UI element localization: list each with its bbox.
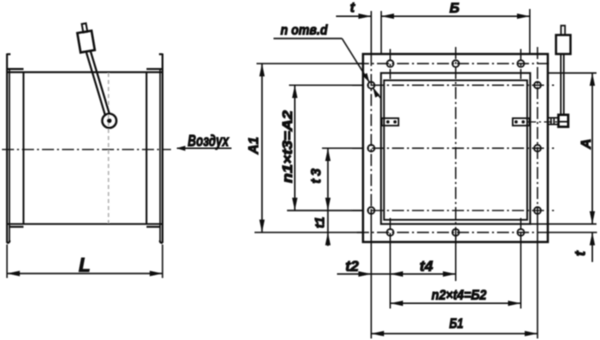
pivot center — [107, 119, 112, 124]
blade vertical centerline — [455, 47, 457, 247]
blade horizontal centerline — [352, 147, 554, 149]
centerline col4 bottom stub — [520, 218, 522, 234]
bolt hole left 1 — [368, 82, 375, 89]
A extension bottom — [530, 223, 597, 225]
t3 extension — [322, 147, 363, 149]
dimension B — [381, 15, 530, 17]
front handle rod — [561, 54, 564, 115]
dimension t4 — [390, 273, 456, 275]
L extension right — [162, 245, 164, 279]
svg-text:t4: t4 — [420, 258, 434, 275]
lower extension col2 — [389, 234, 391, 309]
svg-text:n2×t4=Б2: n2×t4=Б2 — [432, 287, 487, 302]
right hinge bracket — [513, 118, 530, 125]
bolt hole left 2 — [368, 145, 375, 152]
bolt hole left 3 — [368, 207, 375, 214]
dimension t3 — [327, 148, 329, 210]
svg-text:n отв.d: n отв.d — [281, 22, 329, 37]
A2 extension top — [289, 84, 363, 86]
duct body bottom edge — [7, 223, 163, 225]
lower extension col5 — [537, 211, 539, 339]
svg-text:t: t — [572, 250, 589, 256]
centerline col2 top stub — [389, 49, 391, 79]
bolt hole bottom 3 — [517, 229, 524, 236]
t top extension 2 — [380, 11, 382, 54]
axis stub centerline — [528, 121, 558, 123]
A1 extension bottom — [255, 231, 364, 233]
handle rod — [86, 50, 109, 114]
duct body top edge — [7, 71, 163, 73]
t right extension — [548, 231, 597, 233]
A2 extension bottom — [287, 210, 363, 212]
duct left wall — [23, 72, 25, 224]
front handle tab — [548, 118, 559, 125]
dimension A1 — [261, 64, 263, 233]
frame outer square — [363, 54, 548, 242]
hole centerline left column — [370, 54, 372, 211]
leader line — [274, 39, 381, 99]
A1 extension top — [257, 63, 364, 65]
right flange — [147, 54, 163, 244]
bolt hole right 2 — [534, 145, 541, 152]
bolt hole right 1 — [534, 82, 541, 89]
front handle knob — [556, 35, 571, 54]
dimension n1xt3=A2 — [294, 85, 296, 210]
damper blade — [384, 80, 527, 220]
hole centerline right column — [537, 47, 539, 211]
duct center line — [2, 149, 171, 151]
dimension t2 — [337, 273, 371, 275]
hole centerline lower side row — [352, 210, 554, 212]
leader arrowheads — [363, 73, 380, 98]
bolt hole top 2 — [452, 60, 459, 67]
svg-text:Б1: Б1 — [449, 316, 463, 331]
front handle clamp square — [558, 115, 568, 127]
left hinge bracket — [382, 118, 399, 125]
svg-text:t2: t2 — [345, 258, 359, 275]
handle stub — [82, 23, 88, 32]
svg-text:А: А — [578, 139, 594, 150]
lower extension col1 — [370, 211, 372, 339]
damper blade axis (gray dashed) — [108, 73, 110, 223]
lower extension col4 — [520, 234, 522, 309]
svg-text:L: L — [79, 256, 91, 277]
clamp middle line — [558, 121, 568, 123]
dimension t top — [336, 15, 371, 17]
hole centerline top row — [357, 63, 552, 65]
centerline col4 top stub — [520, 49, 522, 79]
hole centerline upper side row — [352, 84, 554, 86]
frame opening — [381, 73, 530, 224]
handle knob — [77, 31, 94, 53]
L extension left — [6, 245, 8, 279]
A extension top — [548, 72, 597, 74]
bolt hole top 1 — [387, 60, 394, 67]
svg-text:Б: Б — [450, 0, 460, 16]
svg-text:t3: t3 — [308, 165, 323, 183]
dimension t right — [591, 232, 593, 262]
svg-text:n1×t3=А2: n1×t3=А2 — [280, 110, 295, 183]
bolt hole right 3 — [534, 207, 541, 214]
dimension t1 — [327, 211, 329, 233]
dimension n2xt4=B2 — [390, 302, 521, 304]
air flow arrow — [177, 147, 232, 149]
duct right wall — [146, 72, 148, 224]
B extension right — [529, 9, 531, 54]
svg-text:А1: А1 — [246, 137, 261, 155]
svg-text:t1: t1 — [312, 217, 327, 229]
bolt hole bottom 1 — [387, 229, 394, 236]
left flange — [7, 54, 24, 244]
front handle stub — [561, 26, 565, 35]
svg-text:t: t — [350, 0, 356, 15]
dimension B1 — [371, 333, 537, 335]
pivot circle — [102, 114, 116, 128]
centerline col2 bottom stub — [389, 218, 391, 234]
bolt hole top 3 — [517, 60, 524, 67]
lower extension col3 — [455, 234, 457, 281]
t top extension 1 — [370, 11, 372, 54]
dimension A — [591, 73, 593, 224]
dimension L — [7, 273, 163, 275]
bolt hole bottom 2 — [452, 229, 459, 236]
hole centerline bottom row — [357, 231, 550, 233]
